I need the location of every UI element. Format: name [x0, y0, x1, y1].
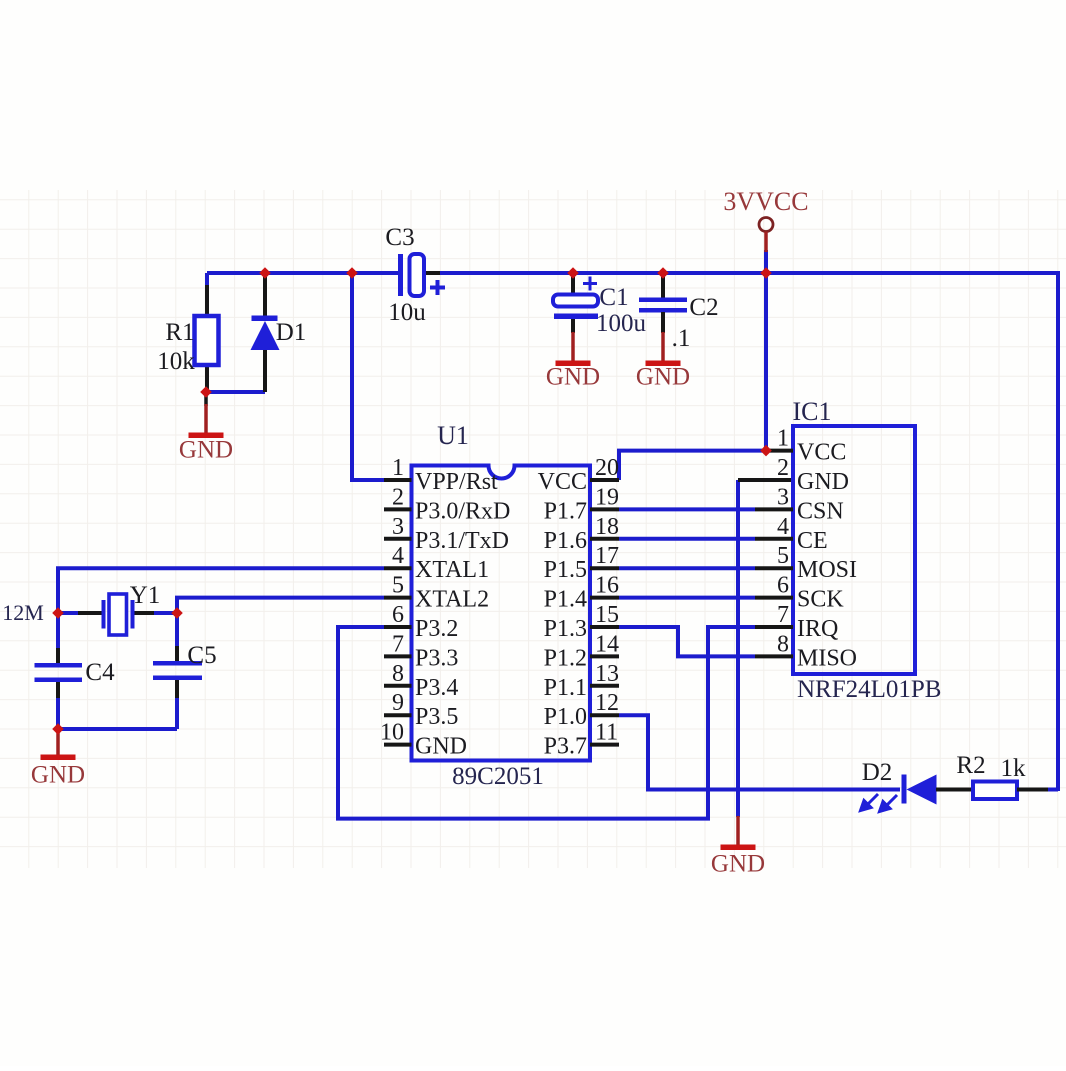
svg-text:MISO: MISO	[797, 645, 857, 671]
capacitor C3 (polarized 10u)	[398, 254, 403, 296]
svg-text:C5: C5	[187, 642, 216, 669]
svg-text:19: 19	[595, 484, 619, 510]
svg-text:14: 14	[595, 631, 619, 657]
wire R1/D1 bottom link	[206, 390, 265, 394]
resistor R2 (1k)	[973, 782, 1017, 800]
wire crystal left lead	[58, 611, 80, 615]
svg-text:4: 4	[777, 514, 789, 540]
U1 pin 2 (P3.0/RxD)	[384, 507, 412, 511]
svg-text:XTAL1: XTAL1	[415, 557, 489, 583]
svg-text:GND: GND	[797, 469, 849, 495]
wire C4 top lead	[56, 613, 60, 650]
node junction on rail at C2	[657, 267, 669, 279]
svg-text:18: 18	[595, 514, 619, 540]
U1 pin 17 (P1.5)	[590, 566, 619, 570]
wire right-edge vertical to R2	[1056, 271, 1060, 791]
svg-text:1: 1	[392, 455, 404, 481]
svg-text:P1.2: P1.2	[544, 645, 587, 671]
wire C4/C5 bottom link	[58, 727, 177, 731]
wire VCC rail right of C3	[439, 271, 1058, 275]
svg-text:IRQ: IRQ	[797, 616, 838, 642]
svg-text:VCC: VCC	[538, 469, 587, 495]
svg-text:3VVCC: 3VVCC	[723, 187, 808, 216]
wire C5 top lead	[175, 613, 179, 648]
wire C5 bottom lead	[175, 680, 179, 700]
RF module IC1 NRF24L01PB	[793, 426, 915, 674]
wire P1.6 to CE	[619, 537, 755, 541]
resistor R1	[205, 285, 209, 316]
svg-text:17: 17	[595, 543, 619, 569]
svg-text:P3.5: P3.5	[415, 704, 458, 730]
svg-text:89C2051: 89C2051	[452, 763, 544, 790]
capacitor C2 (.1)	[661, 273, 665, 299]
wire P1.7 to CSN	[619, 507, 755, 511]
svg-text:9: 9	[392, 690, 404, 716]
svg-text:1k: 1k	[1001, 755, 1027, 782]
node junction crystal left (12M)	[52, 607, 64, 619]
wire IC1 GND stub horizontal	[738, 478, 793, 482]
capacitor C4	[35, 663, 83, 668]
node junction C4/C5 ground	[52, 723, 64, 735]
svg-text:CE: CE	[797, 528, 828, 554]
svg-text:MOSI: MOSI	[797, 557, 857, 583]
wire XTAL2 from crystal node	[177, 598, 384, 613]
U1 pin 9 (P3.5)	[384, 713, 412, 717]
IC1 pin 1 (VCC)	[766, 449, 793, 453]
svg-text:P3.2: P3.2	[415, 616, 458, 642]
svg-text:GND: GND	[636, 364, 690, 391]
svg-text:6: 6	[777, 573, 789, 599]
svg-text:2: 2	[777, 455, 789, 481]
wire main VCC rail top horizontal	[207, 271, 399, 275]
svg-text:C2: C2	[689, 294, 718, 321]
svg-text:Y1: Y1	[130, 582, 161, 609]
LED D2	[902, 775, 907, 804]
IC1 pin 4 (CE)	[755, 537, 793, 541]
wire U1 pin20 to IC1 VCC	[619, 451, 766, 480]
svg-text:R2: R2	[956, 752, 985, 779]
U1 pin 8 (P3.4)	[384, 684, 412, 688]
ground for C1	[571, 332, 575, 362]
ground for R1/D1	[204, 392, 208, 406]
svg-text:VPP/Rst: VPP/Rst	[415, 469, 498, 495]
IC1 pin 6 (SCK)	[755, 596, 793, 600]
U1 pin 3 (P3.1/TxD)	[384, 537, 412, 541]
U1 pin 4 (XTAL1)	[384, 566, 412, 570]
svg-text:C1: C1	[599, 284, 628, 311]
svg-text:GND: GND	[179, 437, 233, 464]
U1 pin 18 (P1.6)	[590, 537, 619, 541]
U1 pin 6 (P3.2)	[384, 625, 412, 629]
node junction on rail at D1	[259, 267, 271, 279]
U1 pin 5 (XTAL2)	[384, 596, 412, 600]
wire C4 bottom lead	[56, 682, 60, 700]
svg-text:GND: GND	[415, 734, 467, 760]
diode D1	[263, 273, 267, 321]
svg-text:P1.4: P1.4	[544, 587, 587, 613]
svg-text:5: 5	[392, 573, 404, 599]
svg-text:P3.1/TxD: P3.1/TxD	[415, 528, 509, 554]
ground for IC1	[736, 816, 740, 846]
svg-text:GND: GND	[711, 851, 765, 878]
ground for C2	[661, 332, 665, 362]
svg-text:12: 12	[595, 690, 619, 716]
wire 3VVCC vertical to IC1 VCC	[764, 250, 768, 451]
IC1 pin 8 (MISO)	[755, 654, 793, 658]
svg-text:P3.4: P3.4	[415, 675, 458, 701]
U1 pin 15 (P1.3)	[590, 625, 619, 629]
U1 pin 1 (VPP/Rst)	[384, 478, 412, 482]
svg-text:U1: U1	[437, 421, 469, 450]
svg-text:P1.1: P1.1	[544, 675, 587, 701]
svg-text:10u: 10u	[388, 299, 426, 326]
svg-text:8: 8	[777, 631, 789, 657]
microcontroller U1 89C2051	[412, 466, 591, 761]
svg-text:6: 6	[392, 602, 404, 628]
wire P1.4 to SCK	[619, 596, 755, 600]
svg-text:GND: GND	[546, 364, 600, 391]
svg-text:GND: GND	[31, 762, 85, 789]
svg-text:3: 3	[392, 514, 404, 540]
svg-text:D1: D1	[276, 319, 307, 346]
svg-text:8: 8	[392, 661, 404, 687]
U1 pin 12 (P1.0)	[590, 713, 619, 717]
svg-text:12M: 12M	[2, 600, 44, 625]
svg-text:IC1: IC1	[793, 397, 832, 426]
svg-text:P1.5: P1.5	[544, 557, 587, 583]
svg-text:CSN: CSN	[797, 498, 844, 524]
wire P3.2 to IRQ (around bottom)	[338, 627, 755, 819]
svg-text:P3.0/RxD: P3.0/RxD	[415, 498, 510, 524]
capacitor C5	[153, 661, 202, 666]
svg-text:P1.3: P1.3	[544, 616, 587, 642]
wire crystal right lead	[134, 611, 156, 615]
svg-text:C4: C4	[85, 659, 115, 686]
svg-text:C3: C3	[385, 224, 414, 251]
svg-text:5: 5	[777, 543, 789, 569]
U1 pin 13 (P1.1)	[590, 684, 619, 688]
svg-text:D2: D2	[862, 759, 893, 786]
svg-text:P1.7: P1.7	[544, 498, 587, 524]
U1 pin 19 (P1.7)	[590, 507, 619, 511]
LED D2 arrows	[861, 794, 898, 812]
svg-text:20: 20	[595, 455, 619, 481]
ground for C4/C5	[56, 729, 60, 756]
IC1 pin 7 (IRQ)	[755, 625, 793, 629]
svg-text:P1.0: P1.0	[544, 704, 587, 730]
svg-text:SCK: SCK	[797, 587, 844, 613]
svg-text:VCC: VCC	[797, 440, 846, 466]
wire P1.0 to LED D2	[619, 715, 900, 789]
svg-text:13: 13	[595, 661, 619, 687]
svg-text:P3.3: P3.3	[415, 645, 458, 671]
svg-text:.1: .1	[672, 325, 691, 352]
svg-text:P3.7: P3.7	[544, 734, 587, 760]
wire P1.5 to MOSI	[619, 566, 755, 570]
svg-text:R1: R1	[165, 319, 194, 346]
svg-text:10k: 10k	[157, 348, 195, 375]
U1 pin 20 (VCC)	[590, 478, 619, 482]
svg-text:XTAL2: XTAL2	[415, 587, 489, 613]
node junction R1/D1/GND	[200, 386, 212, 398]
U1 pin 14 (P1.2)	[590, 654, 619, 658]
svg-text:3: 3	[777, 484, 789, 510]
wire R1 top drop	[205, 273, 209, 285]
node junction on rail at C1	[567, 267, 579, 279]
node junction crystal right	[171, 607, 183, 619]
svg-text:1: 1	[777, 426, 789, 452]
svg-text:16: 16	[595, 573, 619, 599]
IC1 pin 3 (CSN)	[755, 507, 793, 511]
wire VPP/Rst drop from rail	[352, 273, 384, 480]
svg-text:15: 15	[595, 602, 619, 628]
wire XTAL1 from crystal node	[58, 568, 384, 613]
svg-text:7: 7	[777, 602, 789, 628]
capacitor C1 (polarized 100u)	[571, 273, 575, 294]
node junction on rail at 3VVCC	[760, 267, 772, 279]
svg-text:10: 10	[380, 720, 404, 746]
svg-text:11: 11	[595, 720, 618, 746]
svg-text:P1.6: P1.6	[544, 528, 587, 554]
U1 pin 10 (GND)	[384, 743, 412, 747]
IC1 pin 5 (MOSI)	[755, 566, 793, 570]
node junction on rail at VPP drop	[346, 267, 358, 279]
wire P1.3 to MISO	[619, 627, 755, 656]
svg-text:NRF24L01PB: NRF24L01PB	[797, 676, 941, 703]
svg-text:100u: 100u	[596, 310, 647, 337]
svg-text:4: 4	[392, 543, 404, 569]
crystal Y1	[102, 600, 106, 629]
svg-text:7: 7	[392, 631, 404, 657]
U1 pin 16 (P1.4)	[590, 596, 619, 600]
node junction IC1 VCC	[760, 445, 772, 457]
svg-text:2: 2	[392, 484, 404, 510]
wire IC1 GND drop	[736, 480, 740, 817]
U1 pin 11 (P3.7)	[590, 743, 619, 747]
U1 pin 7 (P3.3)	[384, 654, 412, 658]
